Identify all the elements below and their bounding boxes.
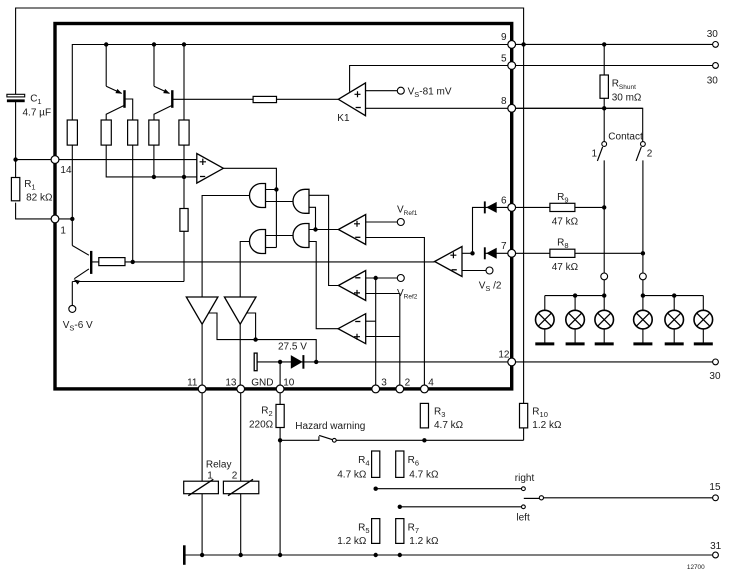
- svg-text:8: 8: [501, 96, 507, 107]
- switch - direction selector: [522, 487, 526, 491]
- node - hazard junction: [278, 438, 282, 442]
- resistor R6 external: [396, 451, 404, 477]
- svg-text:2: 2: [232, 471, 238, 482]
- label - input K1: [356, 107, 361, 109]
- terminal 30 (pin5 line): [713, 63, 719, 69]
- svg-text:15: 15: [709, 482, 721, 493]
- ground - lamp R2: [665, 342, 684, 345]
- resistor R base (Q3): [99, 258, 125, 266]
- resistor RShunt: [600, 75, 608, 98]
- label + input C2: [354, 290, 360, 296]
- resistor R1: [11, 178, 19, 201]
- gate G3 (NAND): [250, 230, 266, 254]
- wire - hazard line to R3/R10: [336, 439, 523, 441]
- diode D1 (pin 6): [486, 202, 497, 213]
- label - input K4: [452, 269, 457, 271]
- ground - lamp L2: [566, 342, 585, 345]
- svg-text:VS-6 V: VS-6 V: [63, 320, 93, 333]
- gate G1 (NAND): [250, 184, 266, 208]
- resistor (mirror leg c): [128, 120, 138, 145]
- diode D2 (pin 7): [486, 248, 497, 259]
- connector - right lamp group: [640, 273, 647, 280]
- svg-text:4.7 kΩ: 4.7 kΩ: [409, 470, 439, 481]
- resistor R6 internal: [180, 177, 188, 282]
- resistor R4: [372, 451, 380, 477]
- svg-text:1: 1: [207, 471, 213, 482]
- svg-text:10: 10: [283, 377, 295, 388]
- svg-text:4.7 µF: 4.7 µF: [23, 108, 52, 119]
- terminal 15: [713, 495, 719, 501]
- wire - pin 9 line to terminal 30: [512, 43, 716, 45]
- node - pin 10 junction on clamp line: [278, 360, 282, 364]
- svg-text:220Ω: 220Ω: [249, 420, 274, 431]
- ground - lamp R3: [694, 342, 713, 345]
- node - R5/bus: [374, 553, 378, 557]
- wire - K4 + input from diode node: [462, 252, 473, 254]
- wire - C1 + input to VRef1 terminal: [366, 221, 401, 223]
- svg-text:12: 12: [498, 350, 510, 361]
- svg-text:47 kΩ: 47 kΩ: [552, 262, 579, 273]
- wire - internal top rail to pin 9: [72, 45, 511, 121]
- transistor Q3 (NPN): [72, 246, 99, 279]
- wire - RShunt column: [603, 44, 605, 141]
- svg-text:1.2 kΩ: 1.2 kΩ: [532, 420, 562, 431]
- op-amp A1 (oscillator comparator): [197, 154, 224, 184]
- svg-text:82 kΩ: 82 kΩ: [26, 193, 53, 204]
- svg-text:6: 6: [501, 195, 507, 206]
- transistor Q2 (PNP, current mirror right): [154, 86, 253, 120]
- wire - Q1 emitter drop: [105, 45, 107, 87]
- wire - R10 bottom link: [523, 428, 525, 440]
- node - VRef2 junction: [374, 276, 378, 280]
- node - Rc/base junction: [131, 260, 135, 264]
- wire - Rb bottom to A1 inverting rail: [106, 145, 197, 177]
- svg-text:VS /2: VS /2: [479, 281, 502, 294]
- connector - left lamp group: [601, 273, 608, 280]
- node - R3 bottom junction: [422, 438, 426, 442]
- pin 9: [508, 41, 516, 49]
- node - R7/bus: [398, 553, 402, 557]
- wire - K4 - input to VS/2 terminal: [462, 270, 490, 272]
- ground - lamp R1: [633, 342, 652, 345]
- comparator C2 (VRef2): [338, 271, 365, 301]
- wire - gate G4 bottom input from comparator C3 output: [309, 242, 338, 329]
- svg-text:12700: 12700: [687, 564, 705, 571]
- wire - ground bus to terminal 31: [184, 554, 715, 556]
- pin 12: [508, 358, 516, 366]
- wire - Ra bottom to pin 1 node: [71, 145, 73, 219]
- resistor R9: [550, 203, 575, 211]
- terminal VS/2: [486, 267, 493, 274]
- wire - contact 1 to left lamp group: [603, 160, 605, 295]
- resistor R7: [396, 519, 404, 544]
- buffer B2 (relay driver): [224, 297, 256, 324]
- pin 2: [396, 385, 404, 393]
- switch - hazard warning blade: [319, 435, 332, 439]
- buffer B1 (lamp driver): [186, 297, 218, 324]
- svg-text:7: 7: [501, 241, 507, 252]
- switch Contact 1: [602, 142, 607, 147]
- lamp L2: [574, 296, 576, 311]
- IC package outline (thick box): [55, 24, 512, 389]
- resistor (mirror leg b): [101, 120, 111, 145]
- svg-text:30: 30: [707, 76, 719, 87]
- wire - VRef2 node down to pin 3: [375, 278, 377, 389]
- label - input C1: [355, 236, 360, 238]
- node - lamp bus junction R1: [641, 293, 645, 297]
- node - C1 output junction: [313, 227, 317, 231]
- svg-text:5: 5: [501, 54, 507, 65]
- svg-text:2: 2: [405, 377, 411, 388]
- svg-text:13: 13: [225, 377, 237, 388]
- ground - lamp L3: [595, 342, 614, 345]
- pin 4: [421, 385, 429, 393]
- diode D3 (27.5 V zener): [291, 355, 303, 369]
- wire - long bus Q3 base to comparator K4: [125, 261, 435, 263]
- node - lamp bus junction R2: [672, 293, 676, 297]
- lamp R2: [673, 296, 675, 311]
- label - input C3: [355, 321, 360, 323]
- switch Contact 2: [641, 142, 646, 147]
- svg-text:left: left: [516, 513, 530, 524]
- node - relay1/bus: [200, 553, 204, 557]
- wire - pin 10 drop: [279, 362, 281, 389]
- wire - Re top drop: [183, 45, 185, 121]
- terminal 30 (pin9 line): [713, 42, 719, 48]
- wire - buffer B2 tap: [247, 313, 256, 340]
- pin 8: [508, 104, 516, 112]
- wire - right contact line: [376, 488, 522, 490]
- svg-text:2: 2: [647, 149, 653, 160]
- wire - B1 output to pin 11: [201, 324, 203, 389]
- node - R8/contact2 junction: [641, 251, 645, 255]
- wire - pin 13 to relay 2 to ground bus: [240, 389, 242, 555]
- terminal 31: [713, 552, 719, 558]
- wire - contact 2 to right lamp group: [642, 160, 644, 295]
- svg-text:30 mΩ: 30 mΩ: [612, 92, 642, 103]
- node - Rd bottom junction: [152, 175, 156, 179]
- terminal VS-81 mV: [397, 87, 404, 94]
- pin 11: [198, 385, 206, 393]
- node - RShunt bottom junction: [602, 106, 606, 110]
- svg-text:Relay: Relay: [206, 460, 232, 471]
- comparator K1: [338, 83, 365, 116]
- terminal VRef2: [397, 275, 404, 282]
- svg-text:3: 3: [381, 377, 387, 388]
- label + input C1: [354, 221, 360, 227]
- svg-text:right: right: [515, 473, 535, 484]
- wire - B2 output to pin 13: [239, 324, 241, 389]
- lamp L3: [603, 296, 605, 311]
- node - R9/contact1 junction: [602, 205, 606, 209]
- wire - A1 output to latch: [223, 168, 276, 247]
- resistor (mirror leg d): [149, 120, 159, 145]
- resistor R5: [372, 519, 380, 544]
- wire - gate G3 top input from gate G4 output: [266, 235, 294, 237]
- wire - C3 + input stub: [366, 336, 400, 338]
- svg-text:4.7 kΩ: 4.7 kΩ: [337, 470, 367, 481]
- lamp R1: [642, 296, 644, 311]
- node - top rail junction Q1 emitter: [104, 42, 108, 46]
- svg-text:9: 9: [501, 32, 507, 43]
- pin 10: [276, 385, 284, 393]
- wire - K1 output to Q2 base: [253, 98, 338, 100]
- wire - Re bottom drop: [183, 145, 185, 177]
- svg-text:47 kΩ: 47 kΩ: [552, 217, 579, 228]
- wire - Rc bottom down to NPN base node: [132, 145, 134, 262]
- wire - selector common to terminal 15: [544, 497, 716, 499]
- lamp R3: [702, 296, 704, 311]
- wire - gate G2 top input from comparator C2: [309, 195, 338, 285]
- node - top rail junction resistor Rd: [182, 42, 186, 46]
- node - Re / R6 junction: [182, 175, 186, 179]
- svg-text:1.2 kΩ: 1.2 kΩ: [337, 536, 367, 547]
- wire - gate G2 bottom input from comparator C1 output node: [309, 207, 316, 229]
- svg-text:4: 4: [428, 377, 434, 388]
- relay coil 2: [223, 481, 258, 494]
- wire - R8 line pin 7: [512, 252, 643, 254]
- wire - clamp line to pin 12: [257, 361, 512, 363]
- pin 7: [508, 249, 516, 257]
- gate G2 (NAND): [293, 189, 309, 213]
- pin 1: [51, 215, 59, 223]
- wire - pin 10 to R2 to ground bus: [279, 389, 281, 555]
- svg-text:27.5 V: 27.5 V: [278, 342, 307, 353]
- node - A1 output / gate G1 input: [274, 187, 278, 191]
- wire - pin 1 node: [70, 217, 74, 221]
- node - RShunt top junction: [602, 42, 606, 46]
- resistor (K1 output series): [253, 96, 276, 102]
- svg-text:Hazard warning: Hazard warning: [295, 421, 365, 432]
- svg-text:GND: GND: [251, 377, 273, 388]
- terminal VS-6V: [69, 305, 76, 312]
- wire - C1 - input down to pin 4: [366, 238, 425, 390]
- label + input K4: [450, 252, 456, 258]
- gate G4 (NAND): [293, 224, 309, 248]
- wire - K1 top edge to pin 5 line: [350, 66, 716, 92]
- label - input C2: [355, 277, 360, 279]
- resistor (mirror leg a): [67, 120, 77, 145]
- node - R4/R5 junction: [374, 487, 378, 491]
- node - supply junction at top: [521, 42, 525, 46]
- svg-text:30: 30: [709, 371, 721, 382]
- label + input C3: [354, 334, 360, 340]
- wire - outer supply loop from C1 top across the top and down to R10: [16, 8, 524, 403]
- wire - gate G1 output to buffer B1: [202, 196, 249, 298]
- svg-text:4.7 kΩ: 4.7 kΩ: [434, 420, 464, 431]
- svg-text:30: 30: [707, 29, 719, 40]
- relay coil 1: [184, 481, 219, 494]
- comparator K4 (VS/2): [435, 247, 462, 277]
- pin 5: [508, 62, 516, 70]
- wire - pin 8 line to contact 2: [512, 108, 643, 141]
- wire - buffer B1 tap: [209, 313, 317, 362]
- node - top rail junction Q2 emitter: [152, 42, 156, 46]
- wire - Q2 emitter drop: [153, 45, 155, 87]
- resistor R2: [276, 404, 284, 427]
- wire - K1 - input to pin 8: [366, 107, 643, 109]
- wire - C2 - input to VRef2 terminal: [366, 277, 401, 279]
- node - R2/bus: [278, 553, 282, 557]
- wire - pin 14 line into op-amp A1 + input: [16, 159, 197, 161]
- wire - pin7 diode branch: [485, 252, 512, 254]
- wire - pin1 down to Q3 collector: [71, 219, 73, 246]
- resistor R3: [420, 403, 428, 428]
- svg-text:31: 31: [710, 541, 722, 552]
- capacitor plate (clamp): [254, 353, 257, 371]
- svg-text:11: 11: [187, 377, 198, 388]
- wire - right lamp bus: [643, 295, 703, 297]
- pin 14: [51, 156, 59, 164]
- node - junction C1/R1/pin 14: [13, 157, 17, 161]
- svg-text:VS-81 mV: VS-81 mV: [408, 87, 452, 100]
- node - lamp bus junction L2: [573, 293, 577, 297]
- wire - C1 bottom plate down to pin-14 node and R1: [16, 101, 73, 219]
- ground - chassis bar: [183, 545, 186, 565]
- ground - lamp L1: [535, 342, 554, 345]
- lamp L1: [544, 296, 546, 311]
- wire - gate G3 bottom input stub: [266, 247, 277, 249]
- resistor R10: [520, 403, 528, 428]
- comparator C1 (VRef1): [338, 215, 365, 245]
- label + input A1: [200, 159, 206, 165]
- comparator C3: [338, 314, 366, 344]
- wire - comparator C1 output to gate G4 top input: [309, 229, 338, 231]
- node - lamp bus junction L3: [602, 293, 606, 297]
- wire - Q3 emitter node to VS-6V and R6 return: [72, 282, 184, 306]
- wire - hazard warning line: [280, 436, 319, 440]
- wire - Rd bottom drop: [153, 145, 155, 177]
- resistor R8: [550, 249, 575, 257]
- terminal 30 (pin12 line): [713, 359, 719, 365]
- label - input A1: [200, 176, 205, 178]
- wire - left contact line: [400, 506, 522, 508]
- node - R6/R7 junction: [398, 505, 402, 509]
- node - D1/D2 cathode junction: [470, 251, 474, 255]
- node - buffer taps junction: [253, 337, 257, 341]
- terminal VRef1: [397, 219, 404, 226]
- wire - left lamp bus: [545, 295, 604, 297]
- svg-text:1.2 kΩ: 1.2 kΩ: [409, 536, 439, 547]
- wire - K1 + input to VS-81mV terminal: [366, 90, 401, 92]
- svg-text:14: 14: [60, 165, 72, 176]
- pin 3: [372, 385, 380, 393]
- svg-text:1: 1: [592, 149, 598, 160]
- svg-text:1: 1: [60, 226, 66, 237]
- capacitor C1: [7, 94, 25, 97]
- node - relay2/bus: [239, 553, 243, 557]
- pin 6: [508, 204, 516, 212]
- resistor (mirror leg e): [179, 120, 189, 145]
- transistor Q1 (PNP, current mirror left): [106, 86, 133, 120]
- wire - gate G3 output to buffer B2: [240, 242, 249, 298]
- pin 13: [237, 385, 245, 393]
- wire - C3 - input stub: [366, 320, 376, 322]
- svg-text:Contact: Contact: [608, 132, 643, 143]
- svg-text:K1: K1: [337, 113, 350, 124]
- wire - C2 + input down to pin 2: [366, 294, 400, 390]
- wire - pin6 diode branch: [473, 207, 512, 253]
- wire - R9 line pin 6: [512, 206, 605, 208]
- wire - gate G1 input stubs: [266, 190, 294, 202]
- wire - pin 12 line to terminal 30: [512, 361, 716, 363]
- label + input K1: [355, 91, 361, 97]
- node - clamp junction buffer taps: [314, 360, 318, 364]
- wire - pin 11 to relay 1 to ground bus: [201, 389, 203, 555]
